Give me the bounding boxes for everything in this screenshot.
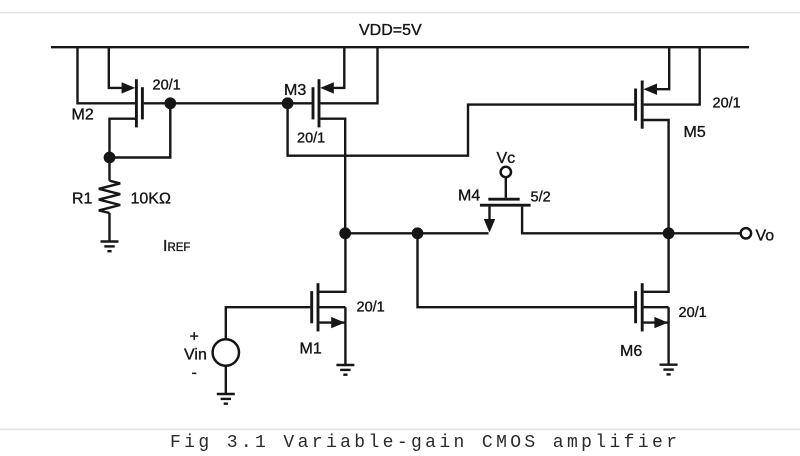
arrow M4 source (NMOS, down) bbox=[484, 219, 495, 233]
node dot Vo bbox=[663, 227, 675, 239]
terminal Vo bbox=[741, 228, 751, 238]
svg-text:IREF: IREF bbox=[163, 238, 190, 255]
transistor M5 bbox=[636, 47, 741, 233]
M5 channel bar bbox=[641, 81, 644, 129]
wire mirror node down to R1 top bbox=[110, 103, 171, 157]
arrow M6 source (NMOS) bbox=[654, 317, 668, 328]
M5 gate bar bbox=[634, 89, 637, 121]
M6 channel bar bbox=[641, 283, 644, 331]
node dot A (M3/M1 drains) bbox=[339, 227, 351, 239]
wire R1 bottom lead bbox=[108, 213, 110, 241]
arrow M2 source (PMOS) bbox=[122, 82, 136, 93]
svg-text:Fig 3.1 Variable-gain CMOS amp: Fig 3.1 Variable-gain CMOS amplifier bbox=[170, 433, 677, 453]
arrow M1 source (NMOS) bbox=[331, 317, 345, 328]
M4 gate bar bbox=[488, 198, 519, 201]
wire M6 drain up to Vo node bbox=[644, 233, 669, 291]
wire node B down to M6 gate bbox=[418, 233, 635, 307]
wire M6 bulk bbox=[644, 306, 669, 308]
wire Vin bottom to ground bbox=[225, 366, 227, 394]
svg-text:M4: M4 bbox=[458, 188, 480, 205]
M1 gate bar bbox=[310, 291, 313, 323]
svg-text:-: - bbox=[192, 365, 197, 382]
svg-text:M2: M2 bbox=[72, 107, 94, 124]
svg-text:VDD=5V: VDD=5V bbox=[359, 22, 422, 39]
arrow M3 source (PMOS) bbox=[320, 82, 334, 93]
wire M5 drain down to Vo node bbox=[644, 120, 669, 233]
wire Vc to M4 gate bbox=[505, 177, 507, 198]
node dot at M2 gate/drain bbox=[164, 97, 176, 109]
svg-text:Vo: Vo bbox=[756, 228, 775, 245]
wire M3 source to VDD bbox=[331, 47, 344, 88]
ground below Vin bbox=[217, 394, 235, 404]
node dot at M3 gate bbox=[282, 97, 294, 109]
M3 gate bar bbox=[312, 87, 315, 119]
wire M1 source bbox=[319, 321, 345, 323]
arrow M5 source (PMOS) bbox=[643, 84, 657, 95]
Vin circle bbox=[213, 339, 239, 365]
wire M1 bulk bbox=[319, 306, 345, 308]
node dot B (to M6 gate) bbox=[412, 227, 424, 239]
svg-text:M5: M5 bbox=[684, 124, 706, 141]
terminal Vc bbox=[501, 167, 511, 177]
transistor M2 bbox=[72, 47, 181, 157]
wire M1 drain up to node A bbox=[319, 233, 345, 291]
wire node row A bbox=[345, 232, 488, 234]
wire M5 bulk to VDD bbox=[644, 47, 700, 104]
svg-text:5/2: 5/2 bbox=[531, 190, 551, 206]
svg-text:20/1: 20/1 bbox=[153, 78, 181, 94]
wire M3 bulk to VDD bbox=[320, 47, 377, 103]
svg-text:Vin: Vin bbox=[184, 347, 207, 364]
wire M2 drain down to R1 node bbox=[110, 119, 136, 158]
wire M2 bulk to VDD bbox=[78, 47, 136, 103]
svg-text:20/1: 20/1 bbox=[297, 131, 325, 147]
faint page rule top bbox=[0, 12, 800, 14]
VDD rail bbox=[51, 46, 749, 48]
R1 zigzag body bbox=[99, 181, 120, 213]
svg-text:R1: R1 bbox=[72, 191, 93, 208]
M6 gate bar bbox=[634, 291, 637, 323]
M1 channel bar bbox=[317, 283, 320, 331]
M3 channel bar bbox=[318, 79, 321, 127]
wire M1 source/bulk down to ground bbox=[344, 307, 346, 365]
wire mirror bus to M5 gate bbox=[288, 103, 635, 155]
svg-text:10KΩ: 10KΩ bbox=[131, 191, 171, 208]
wire M3 drain down to node A bbox=[320, 119, 345, 234]
svg-text:M3: M3 bbox=[284, 82, 306, 99]
svg-text:M1: M1 bbox=[300, 341, 322, 358]
transistor M3 bbox=[284, 47, 378, 233]
M2 channel bar bbox=[135, 79, 138, 127]
ground below R1 bbox=[101, 242, 119, 252]
ground below M1 bbox=[336, 365, 354, 375]
wire M5 source to VDD bbox=[654, 47, 669, 89]
node dot R1 top bbox=[104, 152, 116, 164]
transistor M6 bbox=[620, 233, 707, 364]
ground below M6 bbox=[660, 365, 678, 375]
svg-text:M6: M6 bbox=[620, 343, 642, 360]
wire M4 source lead bbox=[488, 207, 490, 221]
wire M6 source/bulk down to ground bbox=[667, 307, 669, 364]
svg-text:Vc: Vc bbox=[497, 150, 516, 167]
faint page rule bottom bbox=[0, 428, 800, 430]
wire M4 drain down and right to Vo node bbox=[522, 207, 741, 234]
wire M2 source to VDD bbox=[109, 47, 125, 88]
svg-text:+: + bbox=[190, 329, 199, 346]
M2 gate bar bbox=[141, 87, 144, 119]
resistor R1 bbox=[72, 158, 171, 241]
M4 channel bar bbox=[480, 204, 531, 207]
svg-text:20/1: 20/1 bbox=[713, 96, 741, 112]
wire M1 gate to Vin bbox=[226, 307, 310, 340]
svg-text:20/1: 20/1 bbox=[679, 305, 707, 321]
transistor M1 bbox=[226, 233, 385, 364]
wire mirror gate bus M2-M3 bbox=[144, 102, 312, 104]
wire M6 source bbox=[644, 321, 669, 323]
source Vin bbox=[184, 329, 239, 394]
transistor M4 bbox=[458, 150, 741, 233]
wire R1 top lead bbox=[108, 158, 110, 181]
svg-text:20/1: 20/1 bbox=[357, 299, 385, 315]
